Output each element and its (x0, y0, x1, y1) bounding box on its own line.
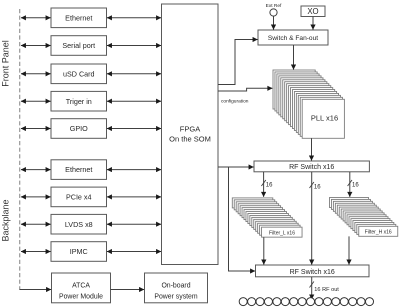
svg-text:configuration: configuration (221, 98, 249, 104)
svg-text:Front Panel: Front Panel (1, 40, 11, 87)
svg-text:Filter_L x16: Filter_L x16 (269, 231, 295, 237)
svg-text:Backplane: Backplane (1, 199, 11, 241)
svg-text:On the SOM: On the SOM (169, 135, 211, 144)
svg-text:Triger in: Triger in (66, 97, 92, 106)
svg-text:Serial port: Serial port (62, 41, 95, 50)
svg-text:16: 16 (314, 185, 321, 191)
svg-text:IPMC: IPMC (70, 247, 88, 256)
svg-text:RF Switch x16: RF Switch x16 (289, 164, 334, 171)
svg-text:16: 16 (352, 183, 359, 189)
svg-text:ATCA: ATCA (72, 283, 90, 290)
svg-text:uSD Card: uSD Card (63, 69, 95, 78)
svg-text:Switch & Fan-out: Switch & Fan-out (268, 35, 318, 42)
svg-text:Power Module: Power Module (59, 293, 103, 300)
svg-text:XO: XO (307, 7, 318, 16)
svg-text:PLL x16: PLL x16 (311, 113, 338, 122)
svg-text:FPGA: FPGA (180, 125, 200, 134)
svg-text:PCIe x4: PCIe x4 (66, 193, 92, 202)
svg-text:Filter_H x16: Filter_H x16 (365, 230, 392, 236)
svg-text:LVDS x8: LVDS x8 (65, 220, 93, 229)
svg-text:GPIO: GPIO (70, 124, 88, 133)
svg-text:Ext Ref: Ext Ref (266, 3, 282, 9)
svg-text:Power system: Power system (154, 293, 198, 300)
svg-text:Ethernet: Ethernet (65, 13, 92, 22)
svg-text:16 RF out: 16 RF out (314, 287, 339, 293)
svg-text:Ethernet: Ethernet (65, 165, 92, 174)
svg-text:On-board: On-board (161, 283, 190, 290)
svg-text:RF Switch x16: RF Switch x16 (290, 269, 335, 276)
svg-text:16: 16 (266, 183, 273, 189)
